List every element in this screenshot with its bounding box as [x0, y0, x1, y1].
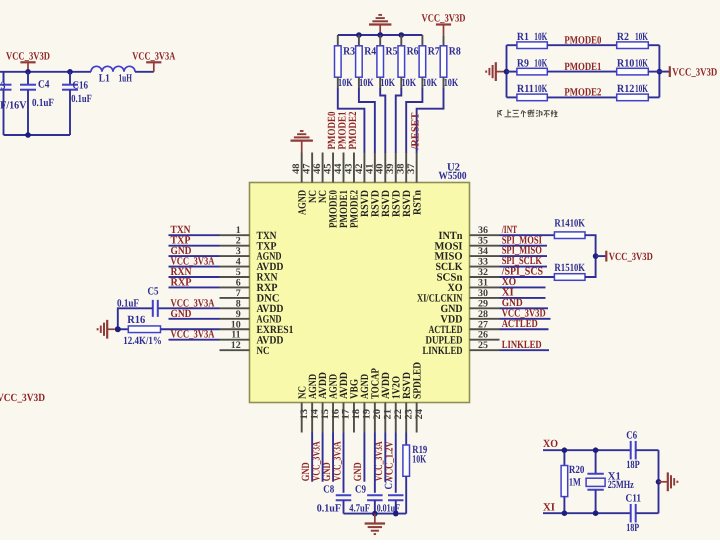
capacitor C16 — [69, 72, 71, 85]
pin 42 RSVD (top) — [363, 153, 365, 183]
svg-text:R15: R15 — [554, 262, 570, 274]
svg-text:XO: XO — [543, 438, 558, 450]
svg-text:9: 9 — [236, 309, 241, 320]
svg-text:12.4K/1%: 12.4K/1% — [123, 335, 162, 347]
svg-text:12: 12 — [231, 340, 241, 351]
svg-text:40: 40 — [375, 164, 386, 175]
svg-text:10K: 10K — [570, 262, 586, 274]
pin 24 SPDLED (bottom) — [416, 403, 418, 433]
svg-text:NC: NC — [257, 345, 270, 357]
pin 13 NC (bottom) — [301, 403, 303, 433]
svg-text:R8: R8 — [449, 45, 461, 57]
svg-text:26: 26 — [478, 330, 488, 341]
svg-text:R3: R3 — [343, 45, 355, 57]
svg-text:47: 47 — [302, 164, 313, 175]
svg-text:37: 37 — [406, 164, 417, 175]
svg-text:VCC_1.2V: VCC_1.2V — [384, 441, 396, 481]
wire pin 3 net GND — [169, 255, 220, 257]
svg-text:18P: 18P — [626, 522, 639, 534]
wire R14 R15 to VCC — [585, 235, 596, 277]
pin 29 GND (right) — [470, 307, 500, 309]
svg-text:VCC_3V3D: VCC_3V3D — [609, 251, 653, 263]
wire pin 8 net VCC_3V3A — [158, 307, 220, 309]
svg-text:29: 29 — [478, 298, 488, 309]
svg-text:C9: C9 — [355, 484, 366, 496]
pin 15 AVDD (bottom) — [322, 403, 324, 433]
note chinese text (drawn strokes) — [497, 110, 499, 117]
resistor R8 — [440, 46, 447, 77]
svg-text:10K: 10K — [534, 57, 547, 69]
node junction dot bus at C16 — [67, 69, 73, 75]
wire pin 20 to C9 — [374, 433, 376, 493]
svg-text:R7: R7 — [428, 45, 440, 57]
capacitor C9 — [367, 494, 383, 496]
svg-text:39: 39 — [385, 164, 396, 175]
ground top center above R5 — [378, 14, 382, 16]
pin 41 RSVD (top) — [374, 153, 376, 183]
capacitor C8 — [336, 494, 352, 496]
resistor R12 — [617, 94, 649, 101]
wire R8 to pin — [417, 88, 444, 153]
svg-text:27: 27 — [478, 319, 488, 330]
svg-text:/SPI_SCS: /SPI_SCS — [501, 266, 543, 278]
svg-text:48: 48 — [291, 164, 302, 175]
wire pin 31 net XO — [500, 286, 546, 288]
wire pin 19 net GND — [363, 433, 365, 482]
svg-text:C8: C8 — [323, 484, 334, 496]
svg-text:36: 36 — [478, 225, 488, 236]
svg-text:28: 28 — [478, 309, 488, 320]
pin 27 ACTLED (right) — [470, 328, 500, 330]
wire pin 22 to C7 — [395, 433, 397, 493]
svg-text:R9: R9 — [517, 57, 529, 69]
ic U2 W5500 body — [250, 183, 470, 403]
svg-text:R4: R4 — [364, 45, 376, 57]
svg-text:10K: 10K — [534, 31, 547, 43]
wire pin 17 to C8 — [343, 433, 345, 493]
svg-text:16: 16 — [330, 409, 341, 420]
svg-text:R14: R14 — [554, 218, 570, 230]
svg-text:PMODE2: PMODE2 — [347, 111, 359, 149]
ground left of R16 — [107, 328, 115, 330]
svg-text:LINKLED: LINKLED — [502, 339, 542, 351]
pin 7 DNC (left) — [220, 297, 250, 299]
wire R6 to pin — [396, 88, 402, 153]
pin 3 AGND (left) — [220, 255, 250, 257]
svg-text:10K: 10K — [338, 77, 353, 89]
pin 18 VBG (bottom) — [353, 403, 355, 433]
pin 31 XO (right) — [470, 286, 500, 288]
resistor R7 — [421, 35, 423, 46]
wire pin 11 net VCC_3V3A — [169, 339, 220, 341]
svg-text:C3: C3 — [0, 80, 6, 92]
svg-text:45: 45 — [322, 164, 333, 175]
wire pin 30 net XI — [500, 297, 546, 299]
svg-text:10: 10 — [231, 319, 241, 330]
crystal X1 — [595, 450, 597, 474]
svg-text:R1: R1 — [517, 31, 529, 43]
svg-text:R16: R16 — [127, 314, 145, 326]
svg-text:C16: C16 — [73, 80, 89, 92]
node junction dot XO at R20 — [562, 447, 568, 453]
svg-text:33: 33 — [478, 257, 488, 268]
pin 33 SCLK (right) — [470, 266, 500, 268]
svg-text:10K: 10K — [402, 77, 417, 89]
svg-text:XI: XI — [543, 502, 555, 514]
svg-text:44: 44 — [333, 164, 344, 175]
svg-text:8: 8 — [236, 298, 241, 309]
pin 14 AGND (bottom) — [311, 403, 313, 433]
svg-text:10K: 10K — [534, 83, 547, 95]
svg-text:1: 1 — [236, 225, 241, 236]
svg-text:VCC_3V3A: VCC_3V3A — [171, 329, 215, 341]
svg-text:R20: R20 — [569, 464, 585, 476]
svg-text:VCC_3V3D: VCC_3V3D — [6, 50, 50, 62]
svg-text:C11: C11 — [626, 492, 642, 504]
resistor R9 — [507, 71, 517, 73]
svg-text:1uH: 1uH — [119, 72, 133, 84]
svg-text:18P: 18P — [626, 459, 640, 471]
power VCC_3V3D above R8 — [436, 23, 451, 25]
capacitor C4 — [27, 72, 29, 85]
pin 21 AVDD (bottom) — [384, 403, 386, 433]
resistor R14 — [554, 232, 585, 239]
svg-text:11: 11 — [231, 330, 240, 341]
pin 39 RSVD (top) — [395, 153, 397, 183]
ground below bottom bus — [374, 514, 376, 524]
node junction dot ladder left bus — [504, 69, 510, 75]
svg-text:22: 22 — [393, 409, 404, 420]
svg-text:3: 3 — [236, 246, 241, 257]
svg-text:/RESET: /RESET — [410, 112, 422, 151]
node junction dot XI at R20 — [562, 510, 568, 516]
resistor R6 — [400, 35, 402, 46]
node junction dot ladder right bus — [657, 69, 663, 75]
pin 22 1V2O (bottom) — [395, 403, 397, 433]
pin 20 TOCAP (bottom) — [374, 403, 376, 433]
pin 30 XI/CLCKIN (right) — [470, 297, 500, 299]
svg-text:20: 20 — [372, 409, 383, 420]
svg-text:10K: 10K — [423, 77, 438, 89]
resistor R1 — [507, 44, 517, 46]
pin 43 PMODE2 (top) — [353, 153, 355, 183]
capacitor C7 — [388, 494, 404, 496]
svg-text:10K: 10K — [359, 77, 374, 89]
node junction dot bus at C7 — [393, 511, 399, 517]
svg-text:0.1uF: 0.1uF — [32, 97, 54, 109]
svg-text:31: 31 — [478, 277, 488, 288]
wire L1 to VCC_3V3A — [135, 71, 154, 73]
wire pin 1 net TXN — [169, 234, 220, 236]
svg-text:4.7uF: 4.7uF — [349, 502, 370, 514]
wire pin 9 net GND — [169, 318, 220, 320]
svg-text:10K: 10K — [635, 31, 648, 43]
svg-text:LINKLED: LINKLED — [423, 345, 463, 357]
pin 32 SCSn (right) — [470, 276, 500, 278]
capacitor C6 — [630, 441, 632, 460]
svg-text:R2: R2 — [617, 31, 629, 43]
svg-text:10uF/16V: 10uF/16V — [0, 100, 27, 112]
svg-text:VCC_3V3D: VCC_3V3D — [422, 13, 466, 25]
pin 47 NC (top) — [311, 153, 313, 183]
wire pin 2 net TXP — [169, 245, 220, 247]
wire pin 32 net /SPI_SCS — [500, 276, 555, 278]
svg-text:10K: 10K — [412, 453, 426, 465]
svg-text:15: 15 — [320, 409, 331, 420]
wire R3 to pin — [338, 88, 365, 153]
pin 4 AVDD (left) — [220, 266, 250, 268]
wire pin 25 net LINKLED — [500, 349, 550, 351]
pin 12 NC (left) — [220, 349, 250, 351]
svg-text:C7: C7 — [383, 478, 395, 489]
node junction dot bus at C9 — [372, 511, 378, 517]
svg-text:17: 17 — [341, 409, 352, 420]
svg-text:25MHz: 25MHz — [608, 479, 634, 491]
pin 26 DUPLED (right) — [470, 339, 500, 341]
wire ladder right bus — [658, 45, 660, 97]
wire ladder left bus — [506, 45, 508, 97]
pin 28 VDD (right) — [470, 318, 500, 320]
power VCC_3V3A top-left — [146, 61, 161, 63]
svg-text:42: 42 — [354, 164, 365, 175]
svg-text:10K: 10K — [380, 77, 395, 89]
svg-text:VCC_3V3A: VCC_3V3A — [171, 297, 215, 309]
svg-text:/INT: /INT — [501, 224, 518, 236]
wire XI net — [543, 512, 631, 514]
wire pin 4 net VCC_3V3A — [169, 266, 220, 268]
pin 11 AVDD (left) — [220, 339, 250, 341]
resistor R10 — [617, 68, 649, 75]
wire XO net — [543, 449, 631, 451]
wire R7 to pin — [406, 88, 422, 153]
svg-text:10K: 10K — [635, 83, 648, 95]
wire pin 36 net /INT — [500, 234, 555, 236]
svg-text:10K: 10K — [444, 77, 459, 89]
svg-text:R5: R5 — [386, 45, 398, 57]
svg-text:19: 19 — [362, 409, 373, 420]
svg-text:7: 7 — [236, 288, 241, 299]
svg-text:VCC_3V3A: VCC_3V3A — [310, 441, 322, 481]
pin 8 AVDD (left) — [220, 307, 250, 309]
inductor L1 — [91, 66, 135, 72]
wire pin 34 net SPI_MISO — [500, 255, 548, 257]
pin 44 PMODE1 (top) — [343, 153, 345, 183]
svg-text:C6: C6 — [626, 429, 637, 441]
pin 45 PMODE0 (top) — [332, 153, 334, 183]
wire pin 21 net VCC_3V3A — [384, 433, 386, 482]
node junction dot XI at X1 — [593, 510, 599, 516]
svg-text:0.1uF: 0.1uF — [71, 93, 92, 105]
wire pin 6 net RXP — [169, 286, 220, 288]
svg-text:PMODE2: PMODE2 — [564, 87, 601, 99]
wire pin 33 net SPI_SCLK — [500, 266, 548, 268]
pin 40 RSVD (top) — [384, 153, 386, 183]
svg-text:SPDLED: SPDLED — [411, 362, 423, 399]
capacitor C11 — [630, 504, 632, 523]
ground above pin 48 — [300, 130, 304, 132]
pin 38 RSVD (top) — [405, 153, 407, 183]
svg-text:10K: 10K — [635, 57, 648, 69]
pin 2 TXP (left) — [220, 245, 250, 247]
node junction dot C5 R16 ground — [115, 326, 121, 332]
wire bottom ground bus — [344, 513, 407, 515]
svg-text:46: 46 — [312, 164, 323, 175]
node junction dot bus at R6 — [399, 32, 405, 38]
wire pin 35 net SPI_MOSI — [500, 245, 548, 247]
wire pin 5 net RXN — [169, 276, 220, 278]
svg-text:41: 41 — [364, 164, 375, 175]
svg-text:W5500: W5500 — [439, 170, 467, 182]
svg-text:38: 38 — [396, 164, 407, 175]
svg-text:32: 32 — [478, 267, 488, 278]
wire crystal right bus — [636, 449, 659, 451]
svg-text:18: 18 — [351, 409, 362, 420]
resistor R4 — [358, 35, 360, 46]
power VCC_3V3D right of R14 R15 — [596, 255, 607, 257]
svg-text:PMODE0: PMODE0 — [564, 34, 601, 46]
svg-text:13: 13 — [299, 409, 310, 420]
svg-text:VCC_3V3A: VCC_3V3A — [132, 50, 175, 62]
svg-text:GND: GND — [171, 308, 192, 320]
resistor R11 — [507, 96, 517, 98]
pin 10 EXRES1 (left) — [220, 328, 250, 330]
pin 34 MISO (right) — [470, 255, 500, 257]
svg-text:25: 25 — [478, 340, 488, 351]
svg-text:30: 30 — [478, 288, 488, 299]
svg-text:23: 23 — [403, 409, 414, 420]
pin 1 TXN (left) — [220, 234, 250, 236]
resistor R2 — [617, 42, 649, 49]
node junction dot VCC_3V3D bus at C4 — [25, 69, 31, 75]
wire R5 to pin — [380, 88, 385, 153]
svg-text:C5: C5 — [148, 286, 159, 298]
svg-text:R11: R11 — [517, 83, 534, 95]
svg-text:10K: 10K — [570, 218, 586, 230]
pin 16 AGND (bottom) — [332, 403, 334, 433]
svg-text:VCC_3V3D: VCC_3V3D — [0, 392, 45, 404]
power VCC_3V3D top-left — [20, 61, 35, 63]
svg-text:24: 24 — [414, 409, 425, 420]
resistor R20 — [563, 450, 565, 465]
pin 37 RSTn (top) — [416, 153, 418, 183]
capacitor C5 — [152, 300, 154, 317]
wire net PMODE2 — [547, 96, 616, 98]
pin 35 MOSI (right) — [470, 245, 500, 247]
node junction dot R14 R15 VCC — [593, 253, 599, 259]
svg-text:RSTn: RSTn — [411, 190, 423, 215]
node junction dot crystal right bus — [656, 479, 662, 485]
svg-text:34: 34 — [478, 246, 488, 257]
svg-text:R12: R12 — [617, 83, 635, 95]
svg-text:0.1uF: 0.1uF — [317, 502, 342, 514]
wire pin 15 net VCC_3V3A — [322, 433, 324, 482]
resistor R15 — [554, 274, 585, 281]
capacitor C3 (partially cut at left edge) — [3, 72, 5, 83]
wire net PMODE1 — [547, 71, 616, 73]
wire pin 27 net ACTLED — [500, 328, 549, 330]
wire top-left 3V3D bus — [0, 71, 91, 73]
svg-text:VCC_3V3A: VCC_3V3A — [331, 441, 343, 481]
resistor R19 — [405, 433, 407, 446]
node junction dot bus at R4 — [356, 32, 362, 38]
svg-text:L1: L1 — [99, 72, 110, 84]
pin 25 LINKLED (right) — [470, 349, 500, 351]
svg-text:1M: 1M — [569, 477, 581, 489]
svg-text:R6: R6 — [407, 45, 419, 57]
pin 5 RXN (left) — [220, 276, 250, 278]
pin 36 INTn (right) — [470, 234, 500, 236]
svg-text:35: 35 — [478, 236, 488, 247]
power VCC_3V3D ladder right — [659, 71, 669, 73]
svg-text:R10: R10 — [617, 57, 635, 69]
pin 6 RXP (left) — [220, 286, 250, 288]
svg-text:ACTLED: ACTLED — [502, 318, 538, 330]
svg-text:21: 21 — [383, 409, 394, 420]
svg-text:5: 5 — [236, 267, 241, 278]
wire top resistor ground bus — [338, 34, 423, 36]
node junction dot bottom bus at C4 — [25, 132, 31, 138]
pin 48 AGND (top) — [301, 153, 303, 183]
ground right of crystal bus — [659, 481, 668, 483]
svg-text:RXP: RXP — [171, 276, 192, 288]
resistor R5 — [379, 35, 381, 46]
pin 46 NC (top) — [322, 153, 324, 183]
resistor R3 — [337, 35, 339, 46]
svg-text:4: 4 — [236, 257, 241, 268]
svg-text:14: 14 — [309, 409, 320, 420]
ground ladder left — [496, 71, 507, 73]
node junction dot bus at R5 — [377, 32, 383, 38]
svg-text:GND: GND — [352, 462, 364, 481]
pin 23 RSVD (bottom) — [405, 403, 407, 433]
wire R4 to pin — [359, 88, 375, 153]
wire pin 28 net VCC_3V3D — [500, 318, 551, 320]
svg-text:PMODE1: PMODE1 — [564, 61, 601, 73]
pin 9 AGND (left) — [220, 318, 250, 320]
wire pin 14 net GND — [311, 433, 313, 482]
pin 19 AGND (bottom) — [363, 403, 365, 433]
svg-text:6: 6 — [236, 277, 241, 288]
svg-text:2: 2 — [236, 236, 241, 247]
wire C5 to ground node — [118, 308, 153, 329]
resistor R16 — [118, 328, 129, 330]
wire pin 16 net GND — [332, 433, 334, 482]
wire bottom bus of C3 C4 C16 — [4, 134, 71, 136]
svg-text:VCC_3V3D: VCC_3V3D — [672, 66, 717, 78]
svg-text:43: 43 — [343, 164, 354, 175]
svg-text:C4: C4 — [38, 78, 50, 90]
pin 17 AVDD (bottom) — [343, 403, 345, 433]
wire net PMODE0 — [547, 44, 616, 46]
wire pin 29 net GND — [500, 307, 549, 309]
node junction dot XO at X1 — [593, 447, 599, 453]
